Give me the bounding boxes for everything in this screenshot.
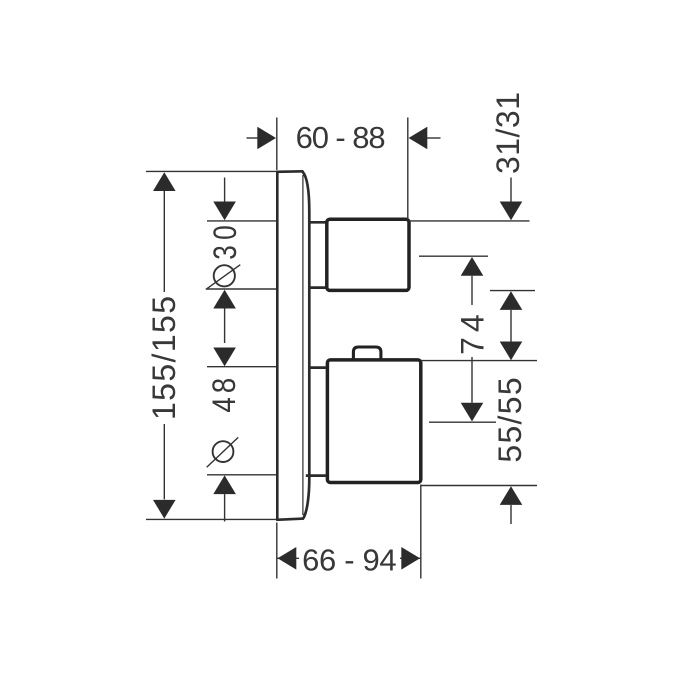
dimension 66-94: dimension line xyxy=(277,557,421,559)
svg-text:60 - 88: 60 - 88 xyxy=(296,120,386,155)
dimension 60-88: left extension line xyxy=(276,118,278,171)
dimension D30: top arrow xyxy=(213,178,236,221)
dimension D30: extension line bottom xyxy=(206,288,276,290)
dimension 31/31: top arrow xyxy=(500,178,523,221)
extension line knob top right xyxy=(409,220,530,222)
escutcheon plate front silhouette xyxy=(302,171,309,518)
dimension D30: extension line top xyxy=(207,220,276,222)
dimension 66-94: right extension line xyxy=(420,485,422,579)
dimension 155/155: top extension line xyxy=(146,170,276,172)
dimension 55/55: top arrow xyxy=(500,342,523,361)
extension line knob bottom right xyxy=(490,290,535,292)
lower handle safety-stop tab xyxy=(353,347,381,359)
dimension 74: label xyxy=(454,314,490,355)
gap double arrow between D30 and D48: lower arrow xyxy=(213,348,236,367)
gap double arrow between D30 and D48: upper arrow xyxy=(213,290,236,343)
dimension 155/155: bottom arrow xyxy=(153,424,176,519)
upper handle neck top line xyxy=(309,221,328,224)
upper handle neck bottom line xyxy=(309,286,328,289)
svg-text:66 - 94: 66 - 94 xyxy=(302,542,397,577)
dimension 66-94: label xyxy=(299,542,400,577)
lower handle neck bottom line xyxy=(306,474,328,477)
escutcheon plate bottom edge xyxy=(276,519,304,520)
dimension 55/55: bottom arrow xyxy=(500,486,523,524)
dimension 31/31: bottom arrow xyxy=(500,291,523,342)
dimension 66-94: left arrow xyxy=(278,547,297,570)
dimension 66-94: right arrow xyxy=(401,547,420,570)
dimension 60-88: label xyxy=(296,120,386,155)
svg-text:155/155: 155/155 xyxy=(146,296,182,420)
dimension 31/31: label xyxy=(490,92,526,174)
dimension 155/155: bottom extension line xyxy=(146,518,276,520)
dimension 155/155: label xyxy=(146,296,182,420)
dimension 74: bottom arrow xyxy=(461,357,484,421)
dimension 74: top arrow xyxy=(461,257,484,305)
lower handle neck top line xyxy=(310,366,329,369)
dimension 74: bottom extension line xyxy=(429,421,496,423)
dimension D48: extension line top xyxy=(207,366,276,368)
dimension D48: diameter symbol xyxy=(207,437,239,467)
dimension 60-88: right arrow xyxy=(409,127,441,150)
extension line lower knob top right xyxy=(421,360,537,362)
upper handle body xyxy=(327,219,409,290)
dimension 60-88: left arrow xyxy=(247,127,277,150)
dimension D30: label digits xyxy=(209,225,244,259)
escutcheon plate front face inner line xyxy=(302,175,304,515)
dimension 66-94: left extension line xyxy=(276,523,278,579)
dimension D48: extension line bottom xyxy=(207,474,276,476)
escutcheon plate back edge xyxy=(276,171,279,521)
dimension D30: diameter symbol xyxy=(207,265,240,289)
dimension D48: label digits xyxy=(207,378,242,413)
dimension 60-88: right extension line xyxy=(407,118,409,221)
lower handle body xyxy=(327,360,420,483)
extension line lower knob bottom right xyxy=(421,485,537,487)
dimension 74: top extension line xyxy=(419,255,488,257)
svg-text:55/55: 55/55 xyxy=(492,377,528,462)
svg-text:31/31: 31/31 xyxy=(490,92,526,174)
dimension 55/55: label xyxy=(492,377,528,462)
escutcheon plate top edge xyxy=(276,170,303,173)
dimension 155/155: top arrow xyxy=(153,172,176,292)
dimension D48: bottom arrow xyxy=(213,475,236,521)
